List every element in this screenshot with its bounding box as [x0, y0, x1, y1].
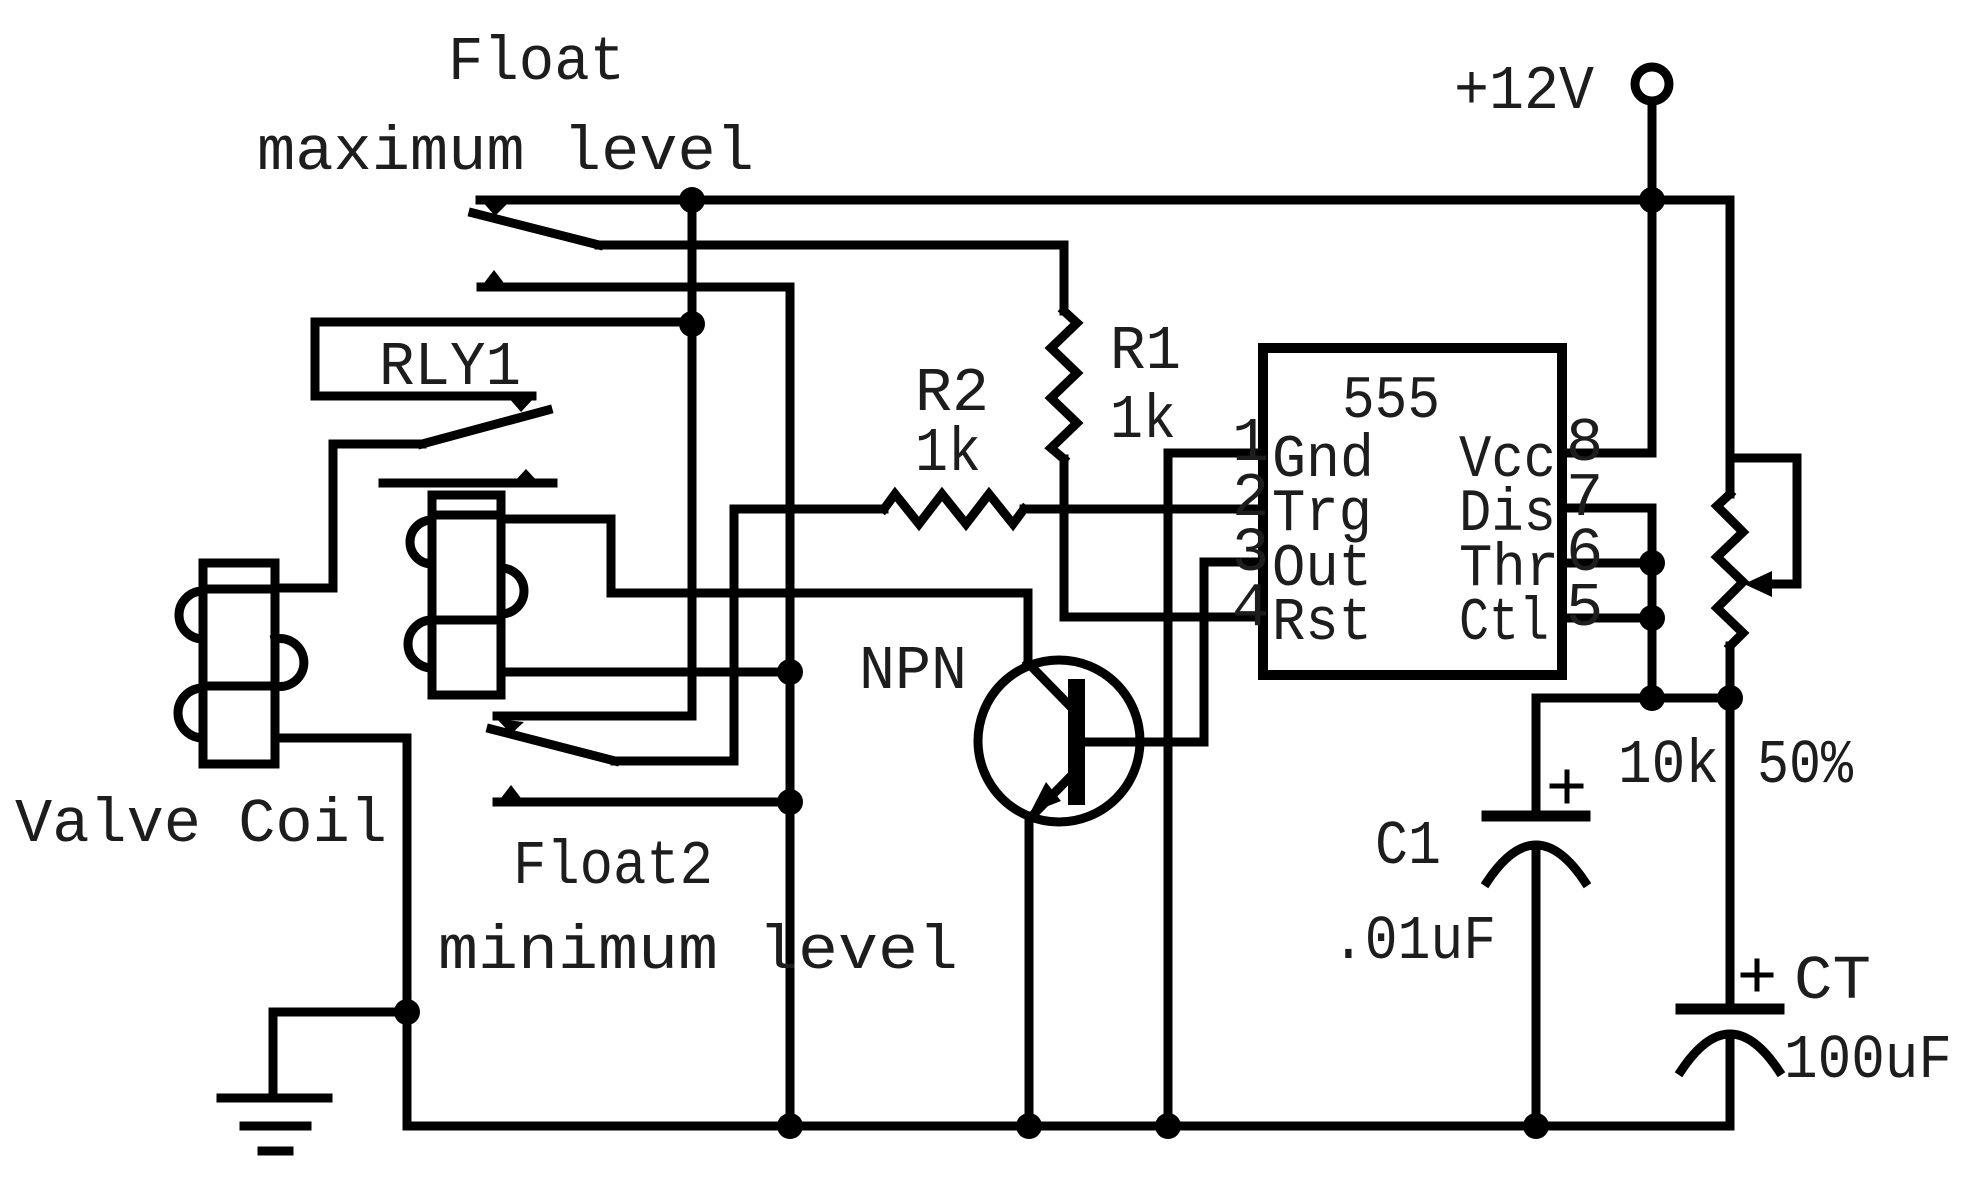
wire R2 right lead to 555 pin 2 Trg [1024, 505, 1263, 514]
wire 555 pin 7 Dis stub [1562, 508, 1652, 563]
junction dot top bus / RLY1 [679, 187, 705, 213]
potentiometer bottom lead [1726, 646, 1735, 1009]
op-amp U1 555 IC box [1263, 348, 1562, 675]
svg-text:R1: R1 [1110, 316, 1181, 387]
transistor Q1 emitter arrowhead [1030, 782, 1061, 813]
wire Vcc vertical from top bus [1648, 200, 1657, 453]
wire 555 pin 6 Thr stub [1562, 559, 1652, 568]
junction dot pin6 node [1639, 550, 1665, 576]
wire vertical from top bus through RLY1 junction to Float2 NC [688, 200, 697, 716]
float switch Float1 NC contact arrowhead [481, 200, 508, 216]
wire C1 bottom to ground bus [1532, 847, 1541, 1126]
junction dot ground bus C [1155, 1113, 1181, 1139]
wire Float2 common [615, 757, 734, 766]
svg-text:minimum level: minimum level [438, 916, 958, 987]
svg-text:Float: Float [448, 27, 625, 98]
wire bottom ground bus [407, 1122, 1730, 1131]
wire 555 pin 8 Vcc stub [1562, 449, 1652, 458]
relay RLY1 contact frame [315, 322, 532, 396]
capacitor C1 top plate [1487, 811, 1585, 822]
svg-text:4: 4 [1232, 573, 1269, 644]
wire Float2 common up to R2 left lead [734, 509, 884, 761]
svg-text:10k: 10k [1618, 730, 1719, 801]
wire +12V top supply bus [480, 196, 1730, 205]
svg-text:CT: CT [1794, 946, 1871, 1017]
svg-text:.01uF: .01uF [1332, 906, 1496, 977]
relay RLY1 NC contact arrowhead [508, 397, 533, 412]
wire control node horizontal C1/pot [1536, 694, 1730, 703]
resistor R2 body [884, 494, 1024, 524]
terminal +12V open circle [1635, 67, 1669, 101]
wire pin6 to pin5 link [1648, 563, 1657, 618]
svg-text:1k: 1k [1110, 385, 1176, 456]
transistor Q1 emitter diagonal [1031, 777, 1070, 817]
relay RLY1 coil body [408, 495, 524, 695]
junction dot control node [1639, 685, 1665, 711]
float switch Float2 NO contact arrowhead [498, 785, 524, 802]
wire Float2 NC contact line [497, 712, 692, 721]
float switch Float1 NO contact arrowhead [481, 270, 507, 287]
potentiometer wiper wire [1730, 458, 1797, 584]
junction dot pin5 node [1639, 605, 1665, 631]
wire 555 pin 3 Out to NPN base [1085, 562, 1263, 742]
capacitor CT top plate [1681, 1004, 1779, 1015]
svg-text:1k: 1k [915, 418, 981, 489]
capacitor C1 top lead [1532, 698, 1541, 816]
capacitor CT plus sign [1743, 961, 1771, 989]
wire Float2 NO contact line [497, 798, 790, 807]
junction dot ground bus D [1523, 1113, 1549, 1139]
wire Valve Coil bottom to ground junction [275, 738, 407, 1126]
valve coil body [178, 563, 304, 764]
transistor Q1 collector diagonal [1028, 663, 1070, 706]
svg-text:Ctl: Ctl [1459, 590, 1549, 658]
capacitor CT curved plate [1681, 1034, 1779, 1071]
resistor R1 body [1051, 311, 1077, 459]
wire R1 bottom to 555 pin 4 Rst [1064, 459, 1263, 617]
wire 555 pin 5 Ctl stub [1562, 614, 1652, 623]
wire RLY1 coil terminal to junction net [501, 668, 790, 677]
junction dot RLY1 common [679, 311, 705, 337]
transistor Q1 base bar [1068, 679, 1085, 805]
potentiometer wiper arrowhead [1744, 571, 1772, 597]
wire NPN emitter to ground bus [1025, 817, 1034, 1126]
potentiometer body [1717, 494, 1743, 646]
capacitor C1 plus sign [1552, 772, 1581, 801]
potentiometer top lead [1726, 200, 1735, 494]
svg-text:555: 555 [1342, 368, 1440, 436]
junction dot top bus / +12V [1639, 187, 1665, 213]
float switch Float2 NC contact arrowhead [497, 719, 524, 734]
wire CT bottom to ground bus [1726, 1035, 1735, 1126]
junction dot valve coil / ground branch [394, 999, 420, 1025]
svg-text:50%: 50% [1757, 730, 1854, 801]
svg-text:+12V: +12V [1454, 56, 1594, 127]
junction dot ground bus B [1016, 1113, 1042, 1139]
wire ground branch [273, 1012, 407, 1098]
svg-text:C1: C1 [1375, 811, 1441, 882]
svg-text:NPN: NPN [859, 636, 967, 707]
svg-text:Float2: Float2 [513, 831, 713, 902]
wire 555 pin 1 Gnd to ground bus [1168, 453, 1263, 1126]
wire Float1 common to R1 top [599, 245, 1064, 311]
relay RLY1 switch blade [422, 410, 548, 444]
svg-text:100uF: 100uF [1784, 1025, 1952, 1096]
svg-text:Valve Coil: Valve Coil [15, 789, 387, 860]
svg-text:5: 5 [1566, 573, 1603, 644]
wire pin5 down to control node [1648, 618, 1657, 698]
wire RLY1 NO contact line [383, 479, 553, 488]
wire RLY1 blade common to Valve Coil top [275, 444, 422, 588]
relay RLY1 NO contact arrowhead [513, 469, 539, 483]
svg-text:RLY1: RLY1 [379, 332, 521, 403]
junction dot pot bottom node [1717, 685, 1743, 711]
junction dot Float2 NO / net [777, 789, 803, 815]
wire +12V terminal stem [1648, 102, 1657, 200]
wire vertical net Float1NO/RLY1coil/Float2NO/ground [786, 287, 795, 1126]
svg-text:maximum level: maximum level [257, 117, 754, 188]
junction dot ground bus A [777, 1113, 803, 1139]
svg-text:Rst: Rst [1272, 590, 1372, 658]
wire Float1 NO contact line [481, 283, 790, 292]
wire RLY1 coil terminal to NPN collector [501, 519, 1028, 662]
transistor Q1 NPN circle [978, 660, 1140, 822]
capacitor C1 curved plate [1487, 845, 1585, 882]
float switch Float2 blade [491, 729, 615, 761]
junction dot RLY1 coil / net [777, 659, 803, 685]
ground symbol [221, 1098, 328, 1151]
wire RLY1 contact-common to junction [315, 318, 692, 327]
float switch Float1 blade [473, 213, 599, 245]
